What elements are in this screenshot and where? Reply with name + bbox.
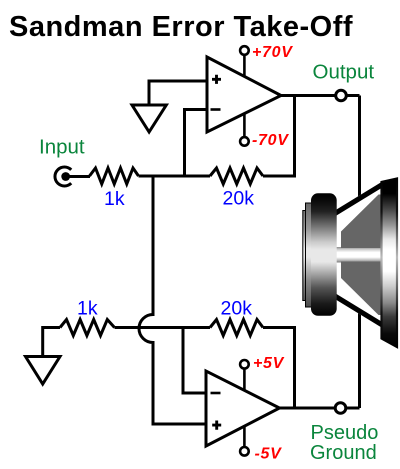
- svg-text:20k: 20k: [223, 188, 255, 210]
- resistor 20k (top feedback): [210, 168, 263, 184]
- wire: top 20k right end up to U1 output: [263, 96, 295, 177]
- svg-text:-5V: -5V: [255, 446, 283, 463]
- wire: bottom horizontal (1k to 20k, passes under hop): [115, 326, 211, 329]
- U1 +70V power pin: [240, 46, 249, 77]
- svg-text:1k: 1k: [104, 188, 125, 210]
- label Pseudo Ground: [310, 422, 378, 464]
- resistor 1k (bottom, to ground): [60, 320, 115, 336]
- wire: bottom 20k right end down to U2 output: [263, 328, 295, 409]
- input jack J1: [55, 167, 71, 186]
- speaker magnet: [311, 193, 337, 315]
- svg-text:1k: 1k: [77, 298, 98, 320]
- speaker cone upper half: [341, 195, 382, 249]
- wire: input jack to 1k: [68, 175, 90, 178]
- node A: top horizontal wire (input node to 20k): [139, 175, 211, 178]
- svg-text:Pseudo: Pseudo: [311, 422, 379, 444]
- speaker white mask top (hides wire between struts): [337, 182, 382, 248]
- ground symbol (top, at U1 + input): [132, 105, 166, 132]
- U1 -70V power pin: [240, 113, 249, 146]
- U2 -5V power pin: [240, 426, 249, 456]
- wire: U1 output to speaker drop: [281, 94, 360, 97]
- svg-text:20k: 20k: [221, 298, 253, 320]
- wire: node A down to U2 + input (with hop over bottom wire): [139, 176, 206, 424]
- wire: bottom ground up to 1k: [43, 328, 60, 357]
- wire: U2 inverting input up to bottom wire: [183, 328, 206, 394]
- svg-text:Sandman Error Take-Off: Sandman Error Take-Off: [9, 11, 353, 43]
- op-amp U1 (top): [207, 57, 281, 132]
- wire: U2 output to pseudo-ground rail: [280, 407, 360, 410]
- speaker white mask bottom: [337, 262, 382, 328]
- speaker front flange: [382, 179, 398, 348]
- speaker (load): [303, 179, 397, 348]
- resistor 1k (top input resistor): [90, 168, 139, 184]
- op-amp U2 (bottom): [206, 371, 280, 446]
- svg-text:Output: Output: [313, 61, 375, 84]
- wire: U1 inverting input down to input node: [185, 110, 208, 178]
- svg-text:-70V: -70V: [252, 132, 289, 149]
- wire: speaker drop (output rail down right side): [358, 96, 361, 409]
- speaker basket strut top: [337, 182, 382, 216]
- ground symbol (bottom, at bottom 1k): [26, 357, 61, 385]
- speaker magnet back plate 1: [306, 203, 313, 307]
- svg-text:Ground: Ground: [310, 442, 377, 464]
- speaker basket strut bottom: [337, 294, 382, 328]
- output node terminal circle: [336, 90, 347, 101]
- speaker cone crossbar: [337, 247, 382, 263]
- U2 +5V power pin: [240, 360, 249, 391]
- resistor 20k (bottom feedback): [210, 320, 263, 336]
- svg-text:+70V: +70V: [252, 44, 293, 61]
- svg-text:Input: Input: [39, 136, 85, 159]
- pseudo-ground node terminal circle: [335, 403, 346, 414]
- svg-text:+5V: +5V: [253, 355, 285, 372]
- speaker cone lower half: [341, 262, 382, 316]
- speaker magnet back plate 2: [303, 211, 307, 301]
- wire: U1 non-inverting input to ground: [149, 81, 207, 105]
